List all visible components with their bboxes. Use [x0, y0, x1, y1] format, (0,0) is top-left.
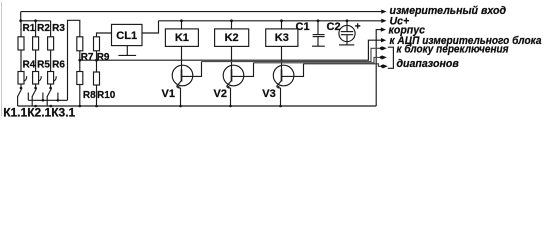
svg-text:К1.1К2.1К3.1: К1.1К2.1К3.1: [3, 106, 75, 118]
label K2: [225, 32, 239, 44]
node: rail dot R8: [79, 105, 82, 108]
resistor R4 (trimmer): [18, 72, 27, 85]
node: dot K3.1 on common line: [57, 99, 60, 102]
wire: contact K2.1 fixed terminal: [42, 93, 44, 101]
relay contact K3.1: [47, 88, 52, 106]
transistor V1: [172, 46, 193, 106]
wire: bottom chassis rail: [18, 105, 377, 107]
svg-text:R10: R10: [97, 90, 116, 101]
wire: R5 lead to contact K2.1: [34, 84, 37, 89]
label K3: [275, 32, 289, 44]
arrowhead: line D: [383, 64, 388, 68]
label V1: [162, 88, 175, 100]
label R8: [83, 90, 96, 101]
resistor R8: [77, 60, 83, 106]
wire: R3 to R6: [50, 50, 52, 72]
wire: contact K3.1 fixed terminal: [57, 93, 59, 101]
label to ADC: [390, 35, 542, 47]
wire: bridge from switch common up over to R7: [68, 20, 80, 100]
node: dot R9/R10: [95, 59, 98, 62]
wire: contact K1.1 fixed terminal: [27, 93, 29, 101]
relay coil K2: [215, 19, 249, 46]
capacitor C1: [312, 19, 325, 46]
svg-text:V1: V1: [162, 88, 175, 100]
svg-text:R1: R1: [23, 23, 36, 34]
label plus C2: [355, 21, 361, 32]
relay coil K3: [266, 19, 298, 46]
node: dot R7/R8: [78, 59, 81, 62]
wire: R4 lead to contact K1.1: [20, 84, 23, 89]
node: dot on line B arrow: [380, 47, 383, 50]
node: dot on line D arrow: [381, 65, 384, 68]
wire: line D V3 base control: [304, 64, 384, 67]
transistor V3: [273, 46, 294, 106]
node: rail dot V3 emitter: [279, 105, 282, 108]
label R6: [52, 59, 65, 70]
label K1: [175, 32, 189, 44]
label R10: [97, 90, 116, 101]
svg-text:R5: R5: [37, 59, 50, 70]
svg-text:к блоку переключения: к блоку переключения: [397, 44, 510, 56]
capacitor C2 (electrolytic): [339, 19, 355, 45]
node: rail dot under K3.1: [50, 105, 53, 108]
svg-text:C2: C2: [327, 21, 341, 33]
label C2: [327, 21, 341, 33]
resistor R7: [77, 37, 83, 60]
svg-text:V2: V2: [214, 88, 227, 100]
relay contact K2.1: [32, 88, 37, 106]
label V3: [262, 88, 275, 100]
arrowhead: line C: [382, 55, 387, 59]
svg-text:K2: K2: [225, 32, 239, 44]
svg-text:R2: R2: [37, 23, 50, 34]
wire: corpus riser: [376, 30, 381, 106]
svg-text:R8: R8: [83, 90, 96, 101]
arrowhead: corpus: [381, 27, 386, 31]
block CL1: [112, 24, 143, 45]
svg-text:V3: V3: [262, 88, 275, 100]
label V2: [214, 88, 227, 100]
svg-text:R9: R9: [97, 52, 110, 63]
svg-text:K1: K1: [175, 32, 189, 44]
resistor R3: [48, 21, 54, 50]
decorative left edge: [1, 2, 3, 116]
wire: left frame vertical: [20, 12, 22, 21]
label R9: [97, 52, 110, 63]
label R7: [81, 52, 94, 63]
wire: Vc+ bus main segment: [159, 20, 383, 22]
svg-text:R3: R3: [52, 23, 65, 34]
wire: R6 lead to contact K3.1: [49, 84, 52, 89]
wire: R1 to R4: [20, 50, 22, 72]
svg-text:CL1: CL1: [116, 30, 137, 42]
label R3: [52, 23, 65, 34]
transistor V2: [223, 46, 244, 106]
arrowhead: to ADC: [381, 38, 386, 42]
node: rail dot V2 emitter: [229, 105, 232, 108]
wire: switch common line: [28, 99, 67, 101]
node: dot K2.1 on common line: [42, 99, 45, 102]
wire: V1 base step: [182, 62, 202, 77]
wire: line B V1 base control: [202, 48, 383, 61]
node: rail dot V1 emitter: [179, 105, 182, 108]
label corpus: [389, 24, 426, 36]
wire: V2 base step: [232, 63, 254, 77]
label R4: [23, 59, 36, 70]
svg-text:K3: K3: [275, 32, 289, 44]
label R2: [37, 23, 50, 34]
label R1: [23, 23, 36, 34]
relay coil K1: [165, 19, 198, 46]
wire: line C V2 base control: [254, 57, 383, 62]
svg-text:R7: R7: [81, 52, 94, 63]
resistor R6 (trimmer): [48, 72, 57, 85]
label R5: [37, 59, 50, 70]
resistor R5 (trimmer): [33, 72, 42, 85]
wire: V3 base step: [282, 64, 304, 77]
label C1: [296, 21, 310, 33]
svg-text:+: +: [355, 21, 361, 32]
svg-text:диапазонов: диапазонов: [397, 58, 460, 70]
label CL1: [116, 30, 137, 42]
relay contact K1.1: [17, 88, 22, 106]
wire: Vc+ bus left segment over R1-R3: [21, 20, 51, 22]
resistor R9: [94, 33, 112, 60]
arrowhead: Uc+: [381, 19, 386, 23]
label K1.1K2.1K3.1: [3, 106, 75, 120]
label ranges: [397, 58, 460, 70]
resistor R10: [94, 60, 100, 106]
resistor R2: [33, 21, 39, 50]
wire: line A to ADC: [80, 40, 382, 60]
wire: CL1 output step to Vc+ bus: [142, 21, 159, 33]
label to range switching block: [397, 44, 510, 56]
bracket: range switching group: [388, 47, 394, 68]
resistor R1: [18, 21, 24, 50]
wire: R2 to R5: [35, 50, 37, 72]
wire: measuring input top line: [21, 11, 382, 13]
node: rail dot under K2.1: [34, 105, 37, 108]
label measuring input: [390, 5, 507, 17]
svg-text:R4: R4: [23, 59, 36, 70]
arrowhead: line B: [382, 46, 387, 50]
svg-text:R6: R6: [52, 59, 65, 70]
arrowhead: measuring input: [381, 9, 386, 13]
svg-text:C1: C1: [296, 21, 310, 33]
node: junction dot R2 top: [34, 19, 37, 22]
node: dot on line C arrow: [380, 56, 383, 59]
label Uc+: [390, 16, 410, 28]
node: rail dot R10: [95, 105, 98, 108]
ground bar under CL1: [118, 46, 136, 56]
node: junction dot frame/bus: [19, 19, 22, 22]
